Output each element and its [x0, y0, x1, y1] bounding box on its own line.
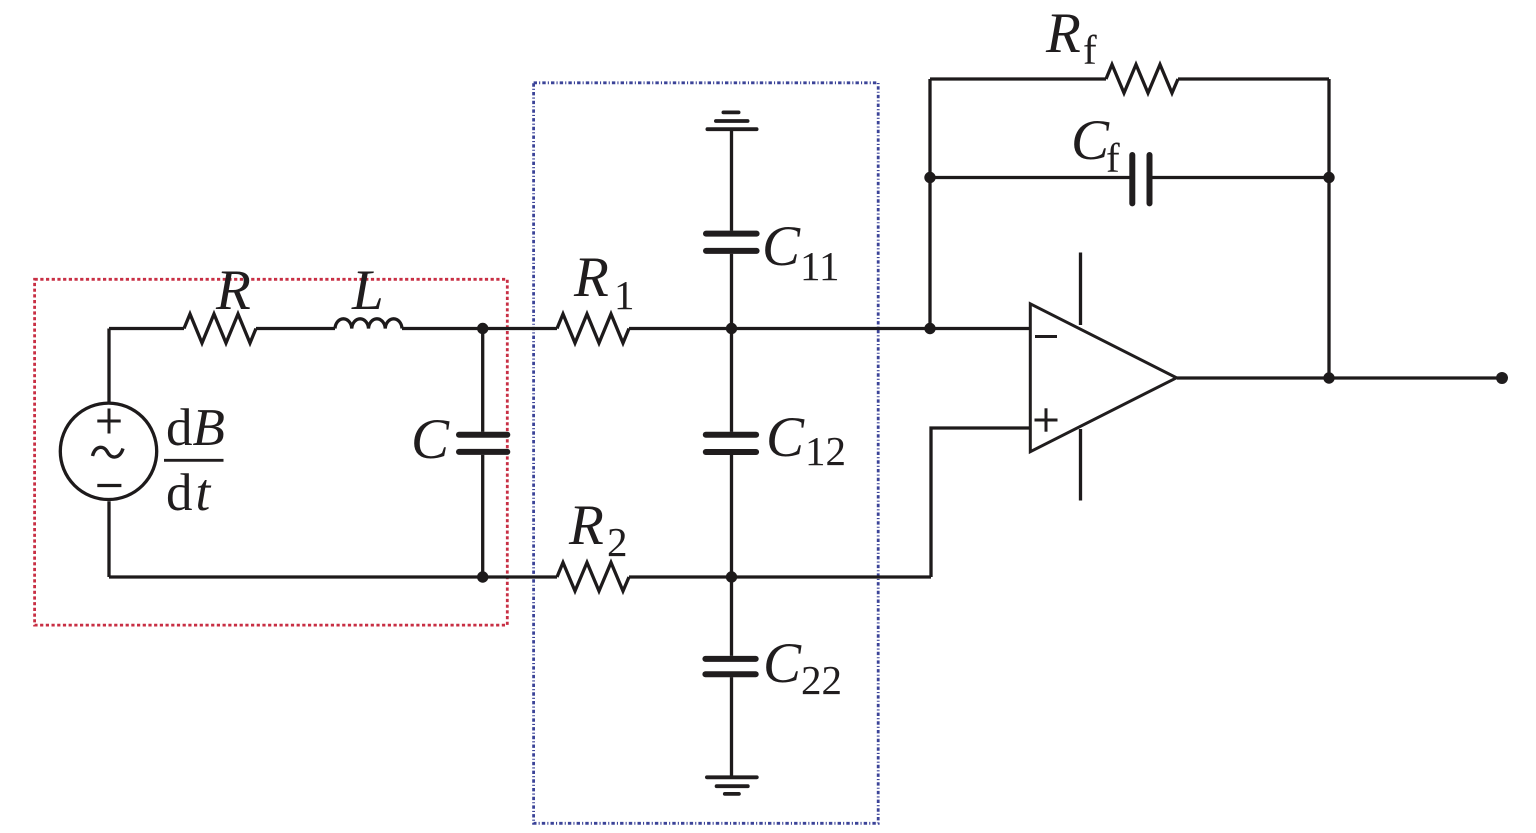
- wire Cf right: [1150, 176, 1329, 179]
- source sine symbol: [93, 447, 124, 457]
- wire source top lead: [107, 329, 110, 404]
- svg-text:11: 11: [800, 243, 839, 289]
- label dB/dt fraction: [164, 399, 225, 522]
- wire Cf left: [930, 176, 1132, 179]
- sensor block red dotted box: [35, 279, 508, 625]
- wire Rf top right: [1178, 77, 1329, 80]
- svg-text:R: R: [573, 246, 609, 309]
- capacitor C12 plates: [706, 435, 756, 452]
- wire top ground to C11: [730, 129, 733, 231]
- node output junction dot: [1323, 372, 1334, 383]
- source plus sign: [97, 409, 120, 434]
- resistor R2: [557, 563, 629, 592]
- svg-text:2: 2: [607, 519, 628, 565]
- capacitor C plates: [459, 435, 507, 452]
- svg-text:C: C: [762, 215, 801, 278]
- svg-text:f: f: [1106, 135, 1120, 181]
- wire C12 to C22: [730, 455, 733, 656]
- capacitor C22 plates: [705, 659, 755, 674]
- svg-text:C: C: [763, 632, 802, 695]
- svg-text:C: C: [411, 408, 450, 471]
- wire op-amp output: [1177, 376, 1502, 379]
- op-amp U1 triangle: [1030, 304, 1176, 452]
- wire capacitor C branch top: [481, 329, 484, 432]
- wire L to node A: [402, 327, 557, 330]
- node A junction dot: [477, 323, 488, 334]
- capacitor C11 plates: [706, 234, 757, 251]
- resistor R1: [557, 314, 629, 343]
- wire feedback right vertical: [1327, 79, 1330, 378]
- node output terminal dot: [1496, 372, 1508, 384]
- svg-text:22: 22: [801, 657, 842, 703]
- svg-text:f: f: [1083, 27, 1097, 73]
- svg-text:C: C: [1071, 109, 1110, 172]
- node C22-R2 junction dot: [726, 571, 737, 582]
- node Cf left junction dot: [924, 172, 935, 183]
- op-amp plus input sign: [1035, 408, 1058, 431]
- node minus-input junction dot: [924, 323, 935, 334]
- wire R1 to op-amp minus input: [629, 327, 1030, 330]
- op-amp minus input sign: [1035, 335, 1057, 338]
- svg-text:L: L: [351, 259, 384, 322]
- wire feedback left vertical: [928, 79, 931, 329]
- source minus sign: [97, 484, 121, 487]
- svg-text:1: 1: [614, 272, 635, 318]
- ground bottom: [707, 777, 757, 794]
- svg-text:R: R: [568, 494, 604, 557]
- svg-text:C: C: [766, 406, 805, 469]
- svg-text:dB: dB: [166, 399, 225, 457]
- resistor Rf: [1106, 65, 1178, 94]
- op-amp power rail top: [1079, 253, 1082, 326]
- svg-text:R: R: [1045, 2, 1081, 65]
- cable block blue dash-dot box: [534, 83, 879, 824]
- svg-text:12: 12: [805, 428, 846, 474]
- capacitor Cf plates: [1132, 155, 1149, 203]
- wire top rail: [109, 327, 184, 330]
- wire C11 to C12: [730, 254, 733, 432]
- wire plus input riser: [931, 428, 1030, 577]
- wire capacitor C branch bottom: [481, 455, 484, 577]
- ground top (inverted): [707, 112, 756, 129]
- wire source bottom lead: [107, 501, 110, 577]
- node Cf right junction dot: [1323, 172, 1334, 183]
- node C11-R1 junction dot: [726, 323, 737, 334]
- wire Rf top left: [930, 77, 1106, 80]
- source V circle: [60, 403, 156, 499]
- wire bottom rail: [109, 575, 557, 578]
- node B junction dot: [477, 571, 488, 582]
- wire C22 to bottom ground: [730, 677, 733, 777]
- svg-text:R: R: [215, 259, 251, 322]
- wire R2 to corner: [629, 575, 931, 578]
- op-amp power rail bottom: [1079, 429, 1082, 501]
- svg-text:dt: dt: [166, 464, 212, 522]
- resistor R: [184, 314, 256, 343]
- wire R to L: [256, 327, 335, 330]
- inductor L: [335, 319, 402, 329]
